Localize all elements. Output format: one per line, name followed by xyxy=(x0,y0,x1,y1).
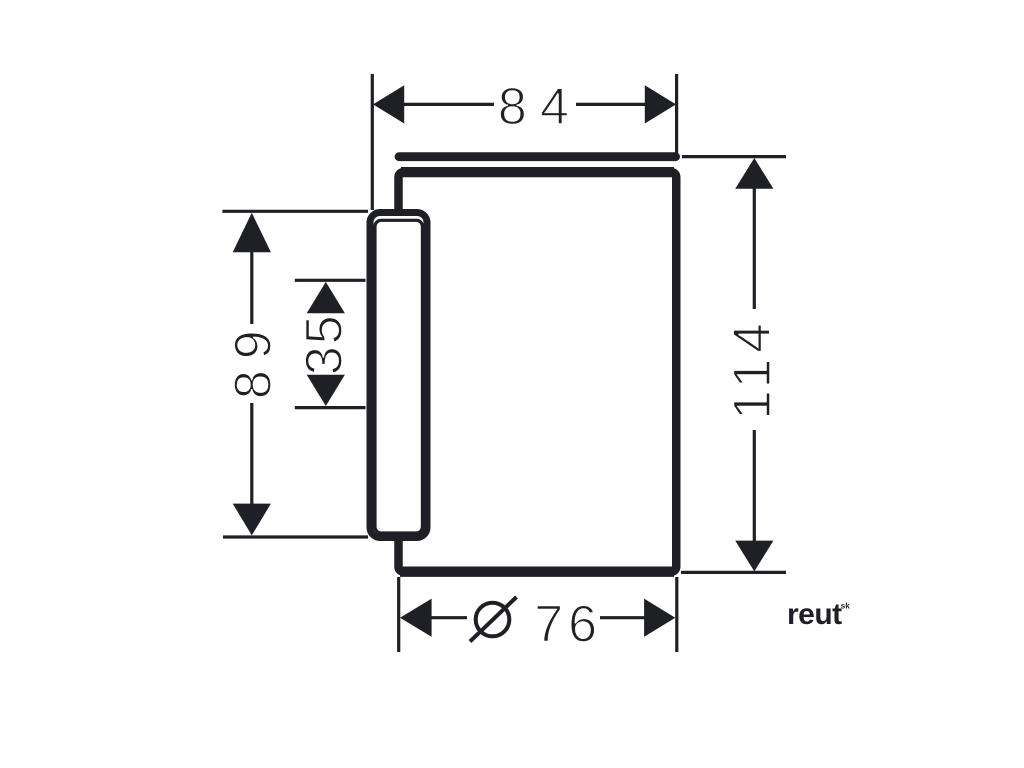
dim 35 text xyxy=(296,313,354,375)
svg-text:35: 35 xyxy=(296,313,354,375)
dim 84 extension line left xyxy=(371,74,374,210)
dim 89 extension line top xyxy=(222,210,368,213)
dim 84 line left segment xyxy=(402,103,494,106)
dim 114 line lower segment xyxy=(753,430,756,541)
svg-text:7: 7 xyxy=(534,596,563,654)
dim 84 arrow left xyxy=(373,85,404,123)
svg-text:reut: reut xyxy=(787,598,842,631)
dim 76 arrow left xyxy=(400,599,432,637)
dim 89 extension line bottom xyxy=(223,535,368,538)
dim 89 line lower segment xyxy=(250,403,253,505)
dim 114 extension line bottom xyxy=(681,571,786,574)
svg-text:6: 6 xyxy=(568,596,597,654)
dim 84 line right segment xyxy=(576,103,647,106)
dim 114 line upper segment xyxy=(753,187,756,309)
dim 114 extension line top xyxy=(682,155,786,158)
dim 114 arrow down xyxy=(735,541,773,572)
dim 35 extension line top xyxy=(295,279,366,282)
dim 76 arrow right xyxy=(644,599,675,637)
dim 84 arrow right xyxy=(645,85,676,123)
dim 89 arrow down xyxy=(233,504,271,536)
holder plate inner edge xyxy=(375,220,422,533)
svg-text:sk: sk xyxy=(841,602,850,611)
dim 76 extension line left xyxy=(397,577,400,652)
svg-text:4: 4 xyxy=(540,78,569,136)
svg-text:114: 114 xyxy=(723,317,782,420)
dim 76 line left segment xyxy=(430,616,467,619)
body outline xyxy=(399,172,677,572)
dim 76 line right segment xyxy=(600,616,646,619)
dim 114 arrow up xyxy=(735,158,773,189)
dim 84 extension line right xyxy=(675,74,678,153)
dim 89 text xyxy=(225,319,283,399)
dim 76 extension line right xyxy=(675,577,678,652)
svg-text:89: 89 xyxy=(225,319,283,399)
dim 35 arrow up xyxy=(307,282,345,313)
dim 89 line upper segment xyxy=(250,251,253,324)
body bottom edge xyxy=(400,567,674,577)
body top edge xyxy=(401,167,674,177)
holder plate outer xyxy=(370,213,427,538)
dim 35 extension line bottom xyxy=(295,406,366,409)
dim 114 text xyxy=(723,317,782,420)
dim 35 arrow down xyxy=(307,375,345,406)
svg-text:8: 8 xyxy=(498,78,527,136)
dim 76 diameter symbol xyxy=(476,603,510,637)
lip top line xyxy=(399,152,676,161)
dim 89 arrow up xyxy=(233,213,271,252)
